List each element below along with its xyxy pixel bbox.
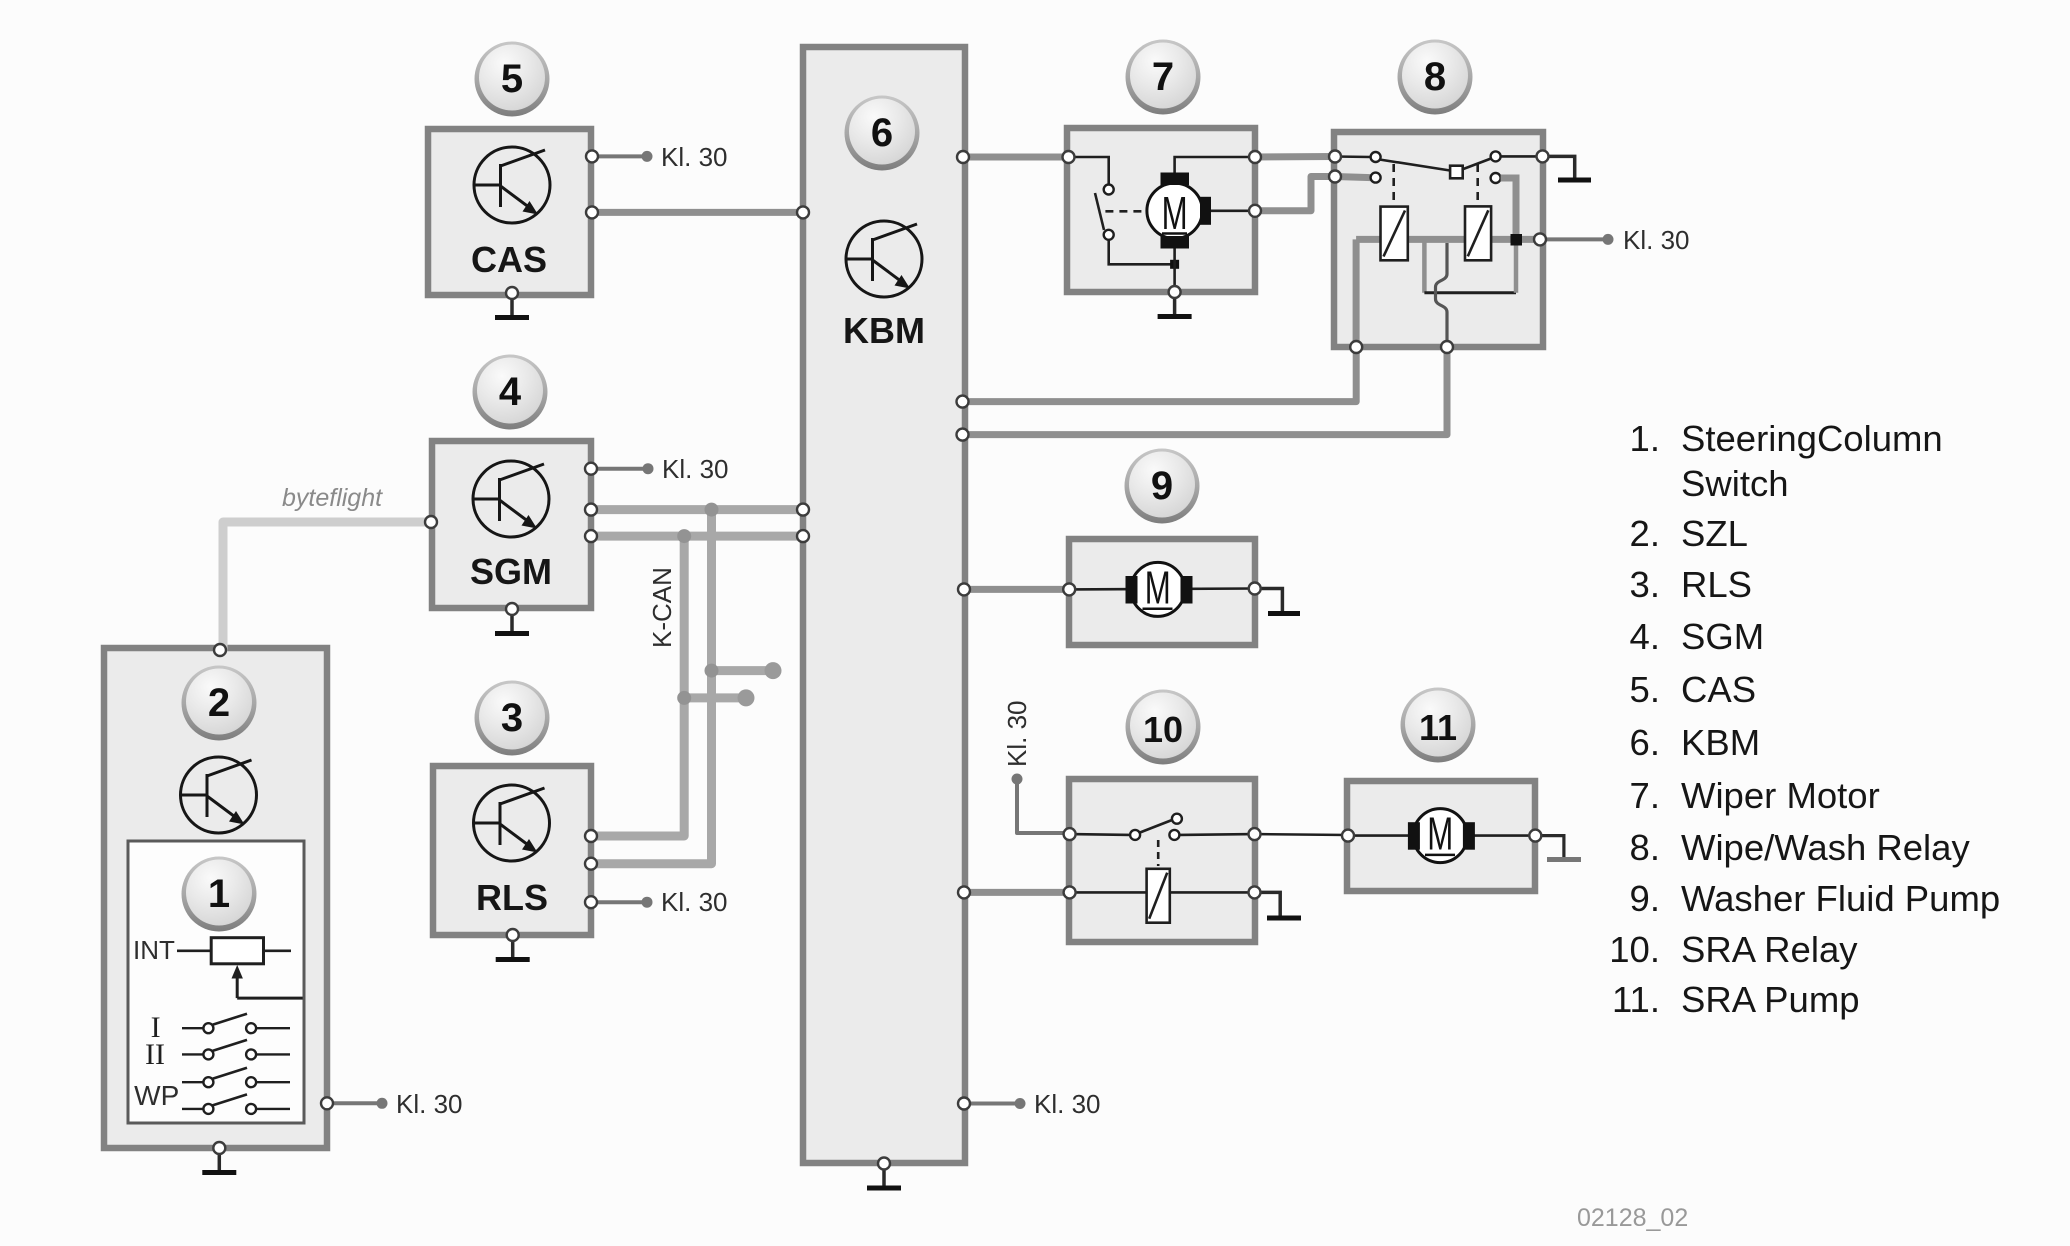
node KBM right pin wiper feed: [957, 151, 969, 163]
wire coil bottom link: [1424, 291, 1516, 294]
motor M11 SRA pump symbol: [1408, 808, 1475, 863]
relay switch 1 lower contact: [1371, 173, 1381, 183]
svg-text:RLS: RLS: [1681, 564, 1752, 605]
node KBM left pin K-CAN 1: [797, 504, 809, 516]
svg-text:KBM: KBM: [1681, 722, 1760, 763]
wire box 7 to relay box 8 upper: [1255, 153, 1334, 161]
wire relay box 8 pin 1 to KBM: [963, 347, 1357, 402]
motor M7 wiper motor symbol: [1147, 173, 1211, 249]
svg-text:K-CAN: K-CAN: [647, 567, 677, 648]
node box 7 right pin upper: [1249, 151, 1261, 163]
box K8 wipe/wash relay: [1334, 132, 1543, 347]
ground at relay box 8: [1543, 156, 1592, 180]
wire contact to box 8 right ground pin: [1501, 155, 1543, 158]
transistor symbol U2 SZL: [181, 757, 257, 833]
switch row WP of S1: [182, 1094, 290, 1114]
svg-text:7: 7: [1152, 55, 1174, 99]
ECU box U6 KBM: [803, 47, 965, 1163]
junction dot K-CAN lower at SGM wire: [677, 529, 691, 543]
junction dot K-CAN stub lower: [677, 691, 691, 705]
INT resistor right lead: [264, 949, 292, 952]
wire K-CAN stub terminator lower: [684, 693, 743, 702]
motor M9 washer fluid pump feed wire: [1069, 587, 1255, 591]
node box 11 right pin: [1529, 830, 1541, 842]
svg-text:Kl. 30: Kl. 30: [1034, 1089, 1101, 1119]
badge 1 steering column switch: [182, 857, 257, 932]
svg-text:10.: 10.: [1609, 929, 1660, 970]
wire right contact to box 10 right pin: [1180, 833, 1255, 836]
svg-text:CAS: CAS: [1681, 669, 1756, 710]
badge 10 SRA relay: [1126, 690, 1201, 765]
svg-text:8.: 8.: [1630, 827, 1660, 868]
node SGM ground pin: [506, 603, 518, 615]
box 10 interior: switch feed wire: [1070, 833, 1131, 836]
box M9 washer fluid pump: [1069, 539, 1255, 645]
svg-text:M: M: [1427, 808, 1453, 860]
svg-text:5: 5: [501, 57, 523, 101]
svg-text:byteflight: byteflight: [282, 484, 383, 512]
wire left pin 2 to lower contact: [1335, 177, 1371, 178]
node box 8 bottom pin 1: [1350, 341, 1362, 353]
legend list: [1609, 418, 2000, 1020]
center square contact: [1450, 166, 1463, 179]
park switch lower contact: [1104, 230, 1114, 240]
svg-text:9.: 9.: [1630, 878, 1660, 919]
node box 8 ground pin: [1537, 150, 1549, 162]
svg-text:SRA Relay: SRA Relay: [1681, 929, 1858, 970]
wire KBM to SRA relay box 10: [964, 889, 1069, 896]
wire relay box 8 pin 2 to KBM: [963, 347, 1448, 435]
relay switch 2 lower contact: [1491, 173, 1501, 183]
ground at SRA relay box 10: [1255, 892, 1302, 918]
box 7 interior: feed wire to park switch: [1069, 157, 1109, 184]
relay switch 1 blade: [1380, 160, 1451, 171]
node KBM right pin relay 2: [957, 429, 969, 441]
wire lower contact to motor bottom junction: [1109, 240, 1171, 264]
svg-text:Kl. 30: Kl. 30: [662, 454, 729, 484]
SRA relay switch left contact: [1130, 830, 1140, 840]
node SGM K-CAN pin 1: [585, 504, 597, 516]
wire KBM to wiper motor box 7: [963, 154, 1067, 161]
node KBM right pin SRA relay: [958, 886, 970, 898]
node box 10 left pin 2: [1064, 886, 1076, 898]
wire hop to box 8 bottom pin 2: [1436, 243, 1448, 347]
ground at wiper motor box 7: [1158, 292, 1192, 317]
node KBM Kl.30 pin: [958, 1098, 970, 1110]
wire rail to box 8 bottom pin 1: [1353, 239, 1360, 347]
wire motor M7 right brush to box 7 right pin: [1211, 210, 1255, 213]
ground at RLS: [496, 935, 530, 960]
node RLS ground pin: [507, 929, 519, 941]
INT resistor left lead: [177, 949, 211, 952]
wire CAS to KBM: [592, 209, 803, 216]
svg-text:4: 4: [499, 370, 522, 414]
badge 5 CAS: [475, 42, 550, 117]
svg-text:Kl. 30: Kl. 30: [661, 887, 728, 917]
wire motor M7 top to box 7 right pin: [1175, 157, 1255, 174]
junction dot K-CAN stub upper end: [765, 662, 782, 679]
ground at SRA pump box 11: [1535, 836, 1581, 860]
box K10 SRA relay: [1069, 779, 1255, 942]
svg-text:9: 9: [1151, 464, 1173, 508]
node box 10 right pin 2: [1249, 886, 1261, 898]
ground at SGM: [495, 609, 529, 634]
node box 8 bottom pin 2: [1441, 341, 1453, 353]
box M7 wiper motor: [1067, 128, 1255, 292]
wire rail drop left: [1422, 239, 1427, 292]
switch block box S1 steering column switch: [128, 841, 304, 1123]
node KBM right pin washer pump: [958, 583, 970, 595]
svg-text:Wiper Motor: Wiper Motor: [1681, 775, 1880, 816]
svg-text:4.: 4.: [1630, 616, 1660, 657]
SRA relay coil row wire: [1070, 891, 1255, 894]
svg-text:11: 11: [1419, 707, 1457, 748]
wire K-CAN branch to RLS pin A: [591, 536, 684, 836]
box 8 interior: wire left pin 1 to contact: [1335, 155, 1371, 158]
node box 8 Kl.30 pin: [1534, 233, 1546, 245]
dashed link relay coil K2: [1476, 164, 1479, 204]
wire Kl.30 terminal at SZL: [327, 1101, 380, 1105]
ground at washer fluid pump box 9: [1255, 589, 1300, 614]
resistor R-INT intermittent control: [211, 938, 263, 964]
wire K-CAN lower SGM to KBM: [591, 532, 804, 541]
svg-text:2.: 2.: [1630, 513, 1660, 554]
node box 10 right pin 1: [1249, 828, 1261, 840]
SRA relay blade tip contact: [1172, 814, 1182, 824]
node box 8 left pin 1: [1329, 151, 1341, 163]
svg-text:3: 3: [501, 696, 523, 740]
wire box 7 motor terminal to relay box 8 lower: [1255, 177, 1334, 211]
node SGM Kl.30 pin: [585, 463, 597, 475]
svg-text:CAS: CAS: [471, 239, 547, 280]
dashed actuator link to motor M7: [1105, 210, 1146, 213]
node box 7 right pin lower: [1249, 205, 1261, 217]
ECU box U2 SZL (steering column electronics): [104, 648, 327, 1148]
transistor symbol U4 SGM: [473, 461, 549, 537]
badge 4 SGM: [473, 355, 548, 430]
wire Kl.30 terminal at relay box 8: [1543, 237, 1606, 241]
wire K-CAN stub terminator upper: [712, 666, 771, 675]
svg-text:SGM: SGM: [1681, 616, 1764, 657]
badge 8 wipe/wash relay: [1398, 40, 1473, 115]
svg-text:5.: 5.: [1630, 669, 1660, 710]
svg-text:Kl. 30: Kl. 30: [661, 142, 728, 172]
switch row II of S1: [182, 1040, 290, 1060]
wire K-CAN upper SGM to KBM: [591, 505, 804, 514]
SRA relay coil: [1147, 869, 1170, 923]
svg-text:10: 10: [1143, 709, 1183, 750]
svg-text:II: II: [145, 1038, 165, 1071]
switch row I of S1: [182, 1014, 290, 1033]
svg-text:Kl. 30: Kl. 30: [396, 1089, 463, 1119]
park switch blade: [1095, 193, 1104, 230]
ECU box U4 SGM: [432, 441, 591, 608]
node RLS Kl.30 pin: [585, 896, 597, 908]
SRA relay switch blade: [1140, 820, 1172, 833]
junction dot K-CAN stub upper: [705, 664, 719, 678]
svg-text:8: 8: [1424, 55, 1446, 99]
badge 2 SZL: [182, 666, 257, 741]
junction square on coil supply rail: [1511, 234, 1523, 246]
svg-text:Kl. 30: Kl. 30: [1623, 225, 1690, 255]
node SZL byteflight pin: [214, 644, 226, 656]
svg-text:SGM: SGM: [470, 551, 552, 592]
node SZL Kl.30 pin: [321, 1097, 333, 1109]
junction square motor M7 bottom: [1170, 260, 1179, 269]
node KBM left pin K-CAN 2: [797, 530, 809, 542]
wire SRA relay box 10 to SRA pump box 11: [1255, 833, 1349, 837]
node SGM K-CAN pin 2: [585, 530, 597, 542]
wire Kl.30 terminal at RLS: [591, 900, 645, 904]
svg-text:Kl. 30: Kl. 30: [1002, 701, 1032, 768]
svg-text:2: 2: [208, 681, 230, 725]
wire lower contact to coil supply rail: [1501, 178, 1516, 240]
park switch upper contact: [1104, 185, 1114, 195]
dashed link SRA relay coil: [1157, 840, 1160, 866]
svg-text:Wipe/Wash Relay: Wipe/Wash Relay: [1681, 827, 1970, 868]
ECU box U3 RLS: [433, 766, 591, 935]
wire rail drop right: [1514, 245, 1519, 293]
badge 11 SRA pump: [1401, 688, 1476, 763]
junction dot K-CAN upper at SGM wire: [705, 503, 719, 517]
node box 9 left pin: [1063, 583, 1075, 595]
node box 9 right pin: [1249, 583, 1261, 595]
relay coil K1: [1381, 207, 1408, 261]
svg-text:INT: INT: [133, 935, 175, 965]
node box 7 ground pin: [1169, 286, 1181, 298]
node box 10 left pin 1: [1064, 828, 1076, 840]
relay switch 1 left contact: [1371, 152, 1381, 162]
node RLS pin B: [585, 858, 597, 870]
svg-text:6.: 6.: [1630, 722, 1660, 763]
badge 9 washer fluid pump: [1125, 449, 1200, 524]
svg-text:6: 6: [871, 111, 893, 155]
badge 6 KBM: [845, 96, 920, 171]
wire byteflight bus SGM to SZL: [220, 522, 431, 650]
wire Kl.30 terminal at KBM: [964, 1102, 1018, 1106]
svg-text:SZL: SZL: [1681, 513, 1748, 554]
svg-text:WP: WP: [134, 1080, 179, 1111]
svg-text:11.: 11.: [1612, 979, 1660, 1020]
node box 11 left pin: [1342, 830, 1354, 842]
node SZL ground pin: [213, 1142, 225, 1154]
ECU box U5 CAS: [428, 129, 591, 295]
svg-text:M: M: [1145, 561, 1171, 613]
node KBM left pin CAS bus: [797, 206, 809, 218]
node KBM ground pin: [878, 1158, 890, 1170]
INT wiper arrow: [236, 976, 239, 998]
wire Kl.30 terminal at SGM: [591, 467, 646, 471]
dashed link relay coil K1: [1392, 164, 1395, 204]
node box 7 left pin: [1063, 151, 1075, 163]
wire motor M7 bottom to box 7 ground pin: [1173, 248, 1176, 292]
badge 7 wiper motor: [1126, 40, 1201, 115]
relay coil K2: [1465, 206, 1491, 260]
ground at SZL: [202, 1148, 236, 1173]
svg-text:SteeringColumn: SteeringColumn: [1681, 418, 1943, 459]
relay switch 2 blade: [1462, 159, 1491, 170]
node KBM right pin relay 1: [957, 396, 969, 408]
box M11 SRA pump: [1347, 781, 1535, 891]
transistor symbol U3 RLS: [474, 785, 550, 861]
ground at CAS: [495, 293, 529, 318]
transistor symbol U6 KBM: [846, 221, 922, 297]
wire Kl.30 feed to SRA relay box 10: [1017, 779, 1070, 833]
wire Kl.30 terminal at CAS: [592, 154, 645, 158]
svg-text:Switch: Switch: [1681, 463, 1789, 504]
node SGM byteflight pin: [425, 516, 437, 528]
svg-text:3.: 3.: [1630, 564, 1660, 605]
node CAS Kl.30 pin: [586, 150, 598, 162]
wire K-CAN branch to RLS pin B: [591, 510, 712, 864]
svg-text:M: M: [1162, 187, 1188, 239]
node CAS ground pin: [506, 287, 518, 299]
svg-text:SRA Pump: SRA Pump: [1681, 979, 1860, 1020]
motor M11 SRA pump feed wire: [1348, 834, 1535, 837]
junction dot K-CAN stub lower end: [738, 689, 755, 706]
node RLS pin A: [585, 830, 597, 842]
node CAS bus pin: [586, 206, 598, 218]
relay switch 2 right contact: [1491, 151, 1501, 161]
svg-text:RLS: RLS: [476, 877, 548, 918]
switch row 3 of S1: [182, 1068, 290, 1088]
motor M9 washer fluid pump symbol: [1126, 561, 1193, 616]
node box 8 left pin 2: [1329, 171, 1341, 183]
svg-text:1.: 1.: [1630, 418, 1660, 459]
svg-text:Washer Fluid Pump: Washer Fluid Pump: [1681, 878, 2000, 919]
badge 3 RLS: [475, 681, 550, 756]
svg-text:02128_02: 02128_02: [1577, 1204, 1688, 1232]
ground at KBM: [867, 1164, 901, 1189]
SRA relay switch right contact: [1169, 830, 1179, 840]
coil supply rail wire: [1356, 236, 1540, 243]
svg-text:KBM: KBM: [843, 310, 925, 351]
svg-text:7.: 7.: [1630, 775, 1660, 816]
wire KBM to washer fluid pump box 9: [964, 586, 1069, 593]
transistor symbol U5 CAS: [474, 147, 550, 223]
svg-text:1: 1: [208, 872, 230, 916]
